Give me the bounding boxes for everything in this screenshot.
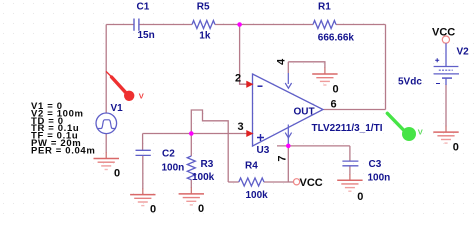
svg-text:V: V	[139, 91, 144, 100]
svg-text:3: 3	[238, 121, 244, 133]
svg-text:VCC: VCC	[300, 177, 323, 189]
op-amp minus input sign	[258, 85, 263, 87]
wire pin 3 horizontal	[143, 133, 248, 135]
wire pin 7 down to R4 net	[287, 146, 289, 182]
wire C3 bottom	[349, 166, 351, 174]
svg-text:4: 4	[276, 58, 288, 65]
wire R4 right to VCC port	[264, 181, 294, 183]
op-amp U3 triangle	[253, 74, 324, 146]
svg-text:100n: 100n	[162, 162, 185, 173]
V1 pulse parameters	[31, 101, 95, 156]
voltage source V2 battery	[434, 43, 459, 85]
op-amp plus input sign	[257, 134, 264, 141]
node junction pin7 net	[286, 144, 291, 149]
node junction R5/R1/pin2	[237, 22, 242, 27]
svg-text:0: 0	[333, 84, 339, 96]
wire feedback vertical	[385, 25, 387, 110]
capacitor C2	[136, 150, 151, 155]
wire pin 7 horizontal to C3	[277, 145, 350, 147]
svg-text:0: 0	[114, 168, 120, 180]
svg-text:C1: C1	[137, 2, 150, 13]
svg-text:OUT: OUT	[294, 107, 315, 118]
wire top-left vertical V1 to top rail	[105, 25, 107, 114]
VCC port at R4	[294, 177, 323, 189]
ground 0 at op-amp pin 4	[312, 68, 338, 96]
V2 minus sign	[436, 83, 440, 85]
wire C2 top	[142, 134, 144, 151]
wire op-amp pin 4 to ground	[288, 62, 325, 68]
wire top rail left segment	[106, 24, 134, 26]
resistor R5	[192, 21, 215, 29]
wire R3 top	[190, 134, 192, 157]
svg-text:2: 2	[235, 73, 241, 85]
capacitor C1	[134, 19, 139, 31]
VCC port top right	[432, 26, 455, 43]
voltage source V1	[96, 113, 117, 134]
svg-text:TLV2211/3_1/TI: TLV2211/3_1/TI	[312, 123, 383, 134]
wire output horizontal	[324, 109, 386, 111]
wire to R4 left	[228, 181, 239, 183]
svg-text:0: 0	[198, 203, 204, 215]
op-amp V+ pin 4 stub arrow	[285, 62, 291, 88]
svg-text:100k: 100k	[246, 190, 269, 201]
wire V1 bottom to ground	[105, 134, 107, 153]
pin 3 red arrow	[247, 131, 253, 136]
wire C3 top	[349, 146, 351, 161]
wire staircase loop	[191, 110, 228, 182]
resistor R4	[239, 178, 264, 186]
svg-text:0: 0	[453, 142, 459, 154]
svg-text:0: 0	[150, 204, 156, 216]
svg-text:C2: C2	[162, 149, 175, 160]
svg-text:666.66k: 666.66k	[318, 32, 355, 43]
svg-text:V: V	[418, 127, 423, 136]
resistor R1	[313, 21, 336, 29]
ground 0 below R3	[179, 188, 205, 216]
wire R1 to feedback corner	[336, 24, 386, 26]
wire V2 bottom to ground	[445, 85, 447, 127]
ground 0 below V2	[433, 126, 459, 154]
svg-text:R5: R5	[197, 2, 210, 13]
svg-text:6: 6	[331, 99, 337, 111]
voltage probe marker on V1 (red)	[106, 72, 143, 101]
svg-text:U3: U3	[257, 145, 270, 156]
wire C1 to R5	[139, 24, 192, 26]
svg-text:C3: C3	[369, 159, 382, 170]
svg-text:0: 0	[357, 191, 363, 203]
capacitor C3	[342, 161, 358, 166]
svg-text:V2: V2	[457, 47, 470, 58]
resistor R3	[187, 156, 195, 180]
svg-text:R3: R3	[201, 159, 214, 170]
svg-text:R4: R4	[245, 161, 258, 172]
V2 plus sign	[435, 58, 439, 62]
ground 0 below V1	[94, 152, 121, 180]
svg-text:5Vdc: 5Vdc	[398, 77, 422, 88]
wire C2 bottom	[142, 156, 144, 189]
svg-text:V1: V1	[111, 103, 124, 114]
node junction pin3/R3/C2 net	[189, 131, 194, 136]
op-amp V- pin 7 stub arrow	[285, 125, 291, 146]
voltage probe marker on output (green)	[387, 113, 423, 141]
wire R5 to R1 through node	[215, 24, 313, 26]
svg-text:R1: R1	[318, 2, 331, 13]
svg-text:100n: 100n	[368, 173, 391, 184]
svg-text:PER = 0.04m: PER = 0.04m	[31, 145, 95, 156]
svg-text:100k: 100k	[192, 172, 215, 183]
ground 0 below C2	[130, 189, 156, 216]
svg-text:15n: 15n	[138, 30, 155, 41]
wire R3 bottom	[190, 180, 192, 189]
pin 2 red arrow	[247, 82, 253, 88]
wire node to pin 2	[240, 25, 248, 85]
svg-text:7: 7	[276, 155, 288, 161]
svg-text:1k: 1k	[199, 30, 211, 41]
ground 0 below C3	[337, 174, 363, 203]
